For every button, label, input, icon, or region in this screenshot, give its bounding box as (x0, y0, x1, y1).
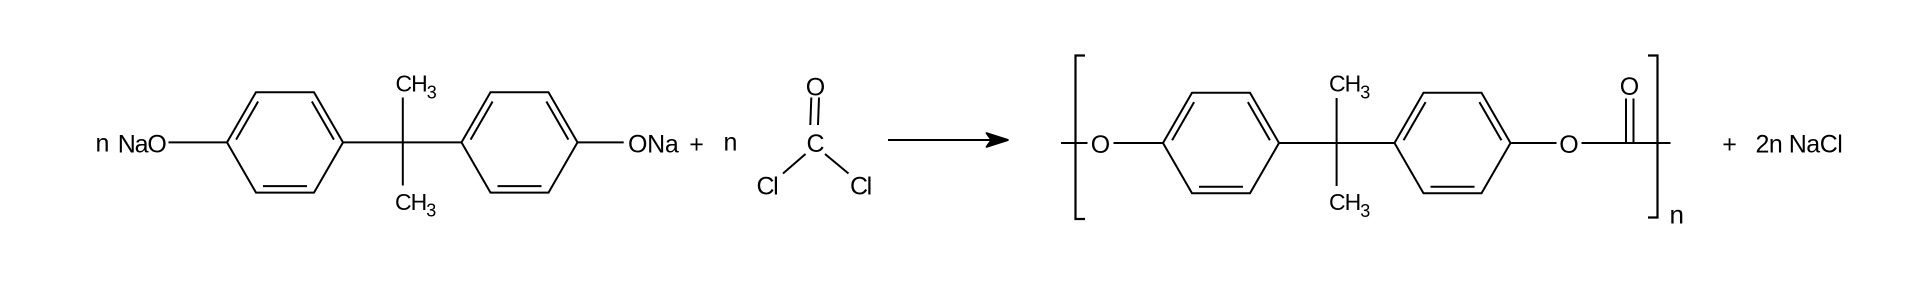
svg-text:+: + (1722, 131, 1737, 159)
svg-text:ONa: ONa (628, 130, 679, 158)
wire: NaO to ring1 (169, 141, 229, 143)
C=O double bond (carbonate carbonyl) (1625, 99, 1627, 144)
wire: ring1 to quaternary C to ring2 (343, 141, 462, 143)
wire: chain stub through left bracket (1061, 142, 1088, 144)
left bracket of repeat unit (1076, 56, 1086, 220)
svg-text:n: n (1670, 200, 1684, 230)
benzene ring 2 (462, 92, 578, 192)
benzene ring 4 (1395, 93, 1511, 193)
svg-text:Cl: Cl (757, 173, 778, 201)
wire: ring4 to ester O (1511, 142, 1557, 144)
wire: C to left Cl (783, 154, 806, 174)
svg-text:O: O (1620, 73, 1639, 101)
wire: C to upper CH3 (reactant) (402, 98, 404, 143)
svg-text:O: O (806, 74, 825, 102)
benzene ring 1 (227, 92, 343, 192)
wire: O to carbonyl C (1582, 142, 1630, 144)
svg-text:n: n (96, 130, 110, 158)
wire: ring3 to quaternary C to ring4 (1279, 142, 1395, 144)
reaction arrow (888, 139, 992, 141)
wire: O to ring3 (1114, 142, 1165, 144)
wire: C to lower CH3 (product) (1336, 143, 1338, 186)
C=O double bond (phosgene) (810, 98, 811, 126)
svg-text:NaO: NaO (118, 130, 167, 158)
wire: ring2 to ONa (578, 141, 624, 143)
svg-text:2n NaCl: 2n NaCl (1756, 131, 1843, 159)
wire: C to right Cl (825, 154, 849, 174)
wire: C to upper CH3 (product) (1336, 98, 1338, 143)
svg-text:CH3: CH3 (1329, 189, 1370, 221)
svg-text:n: n (724, 129, 738, 157)
svg-text:Cl: Cl (850, 173, 871, 201)
svg-text:O: O (1091, 131, 1110, 159)
svg-text:CH3: CH3 (1329, 71, 1370, 103)
wire: carbonyl C out through right bracket (1630, 142, 1671, 144)
wire: C to lower CH3 (reactant) (402, 142, 404, 185)
svg-text:+: + (689, 131, 704, 159)
benzene ring 3 (1163, 93, 1279, 193)
right bracket of repeat unit (1648, 56, 1658, 218)
svg-text:C: C (806, 130, 824, 158)
svg-text:O: O (1559, 131, 1578, 159)
svg-text:CH3: CH3 (395, 189, 436, 221)
svg-text:CH3: CH3 (396, 71, 437, 103)
